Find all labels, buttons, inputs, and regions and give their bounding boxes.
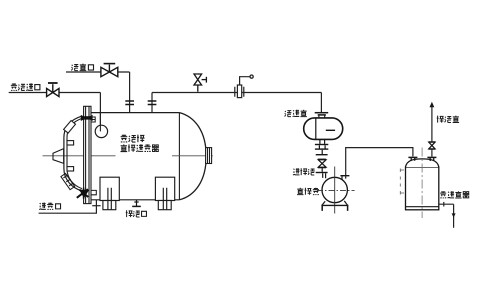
nozzle: blowdown stub 排污口 (132, 200, 141, 207)
door: flange ring (vessel left end) (84, 106, 91, 203)
wire: drain line 疏水口 (39, 200, 97, 213)
separator: vertical centerline (421, 148, 423, 219)
wire: pump discharge to separator (346, 148, 413, 175)
door: dished door outer profile (64, 116, 82, 191)
door: small tab below cone (67, 167, 74, 171)
wire: separator bottom drain with arrow (439, 202, 454, 228)
clamp: door clamp top (black) (81, 115, 93, 121)
pump: vertical center line (334, 167, 336, 214)
label: 真空干燥器 (on vessel) (120, 144, 158, 151)
label: 蒸汽进口 (11, 83, 40, 90)
door: dished door inner profile (67, 118, 82, 188)
separator: water separator vessel (406, 159, 439, 210)
nozzle: separator left inlet flange (408, 157, 417, 160)
label: 疏水口 (39, 203, 60, 210)
door: hatched davit handle (rotated, lower left) (61, 173, 75, 189)
label: 逆止阀 (293, 168, 315, 175)
check valve stack under buffer tank (315, 139, 328, 154)
vessel: dished head (right dome) (179, 113, 206, 200)
label: 水分离器 (440, 191, 469, 198)
wire: main vacuum line from vessel nozzle to buffer tank (152, 93, 321, 113)
nozzle: vessel top nozzle 1 flange (125, 101, 134, 105)
door: upper hinge lug (rotated) (64, 121, 76, 134)
centerline of vessel (43, 155, 213, 157)
flange: pump discharge flange (340, 176, 349, 180)
label: 排污口 (126, 210, 147, 217)
nozzle: vessel top nozzle 2 flange (148, 101, 157, 105)
valve: disinfection valve with T handle (101, 64, 118, 77)
separator: left level gauge (400, 169, 404, 195)
instrument: inline sensor with stem and dot (235, 75, 253, 98)
wire: steam inlet pipe (9, 93, 101, 132)
label: 缓冲罐 (285, 110, 307, 117)
pump: base (321, 201, 348, 211)
tank: buffer tank 缓冲罐 (315, 113, 329, 115)
wire: exhaust line with arrow 排气管 (431, 107, 433, 157)
valve: exhaust valve (429, 142, 436, 149)
bracket: hinge bracket bottom right of flange (91, 190, 96, 194)
label: 蒸汽型 (on vessel) (121, 135, 145, 143)
vessel: dryer bottom shell line (90, 199, 179, 201)
leg: right support leg (155, 177, 174, 210)
pump: horizontal center line (317, 190, 355, 192)
label: 真空泵 (297, 188, 319, 195)
bracket: hinge bracket top right of flange (91, 117, 95, 122)
label: 排气管 (437, 116, 459, 123)
nozzle: separator right outlet flange (427, 157, 436, 161)
door: center cone (53, 149, 64, 164)
sight glass: steam rotary joint circle (95, 125, 107, 137)
pump: vacuum pump circle (322, 177, 347, 202)
nozzle: vessel right side capped nozzle (206, 148, 212, 164)
wire: disinfection port pipe (66, 72, 130, 113)
valve: steam inlet valve with T handle (47, 83, 59, 97)
door: small tab above cone (67, 141, 74, 145)
clamp: door clamp bottom (black X) (77, 188, 88, 199)
vessel: head seam line (178, 113, 180, 200)
valve: check valve 逆止阀 (316, 159, 328, 178)
label: 消毒口 (71, 64, 93, 71)
valve: vacuum line globe valve (vertical, handle right) (194, 74, 206, 92)
vessel: dryer top shell line (91, 112, 179, 114)
leg: left support leg (100, 177, 119, 210)
